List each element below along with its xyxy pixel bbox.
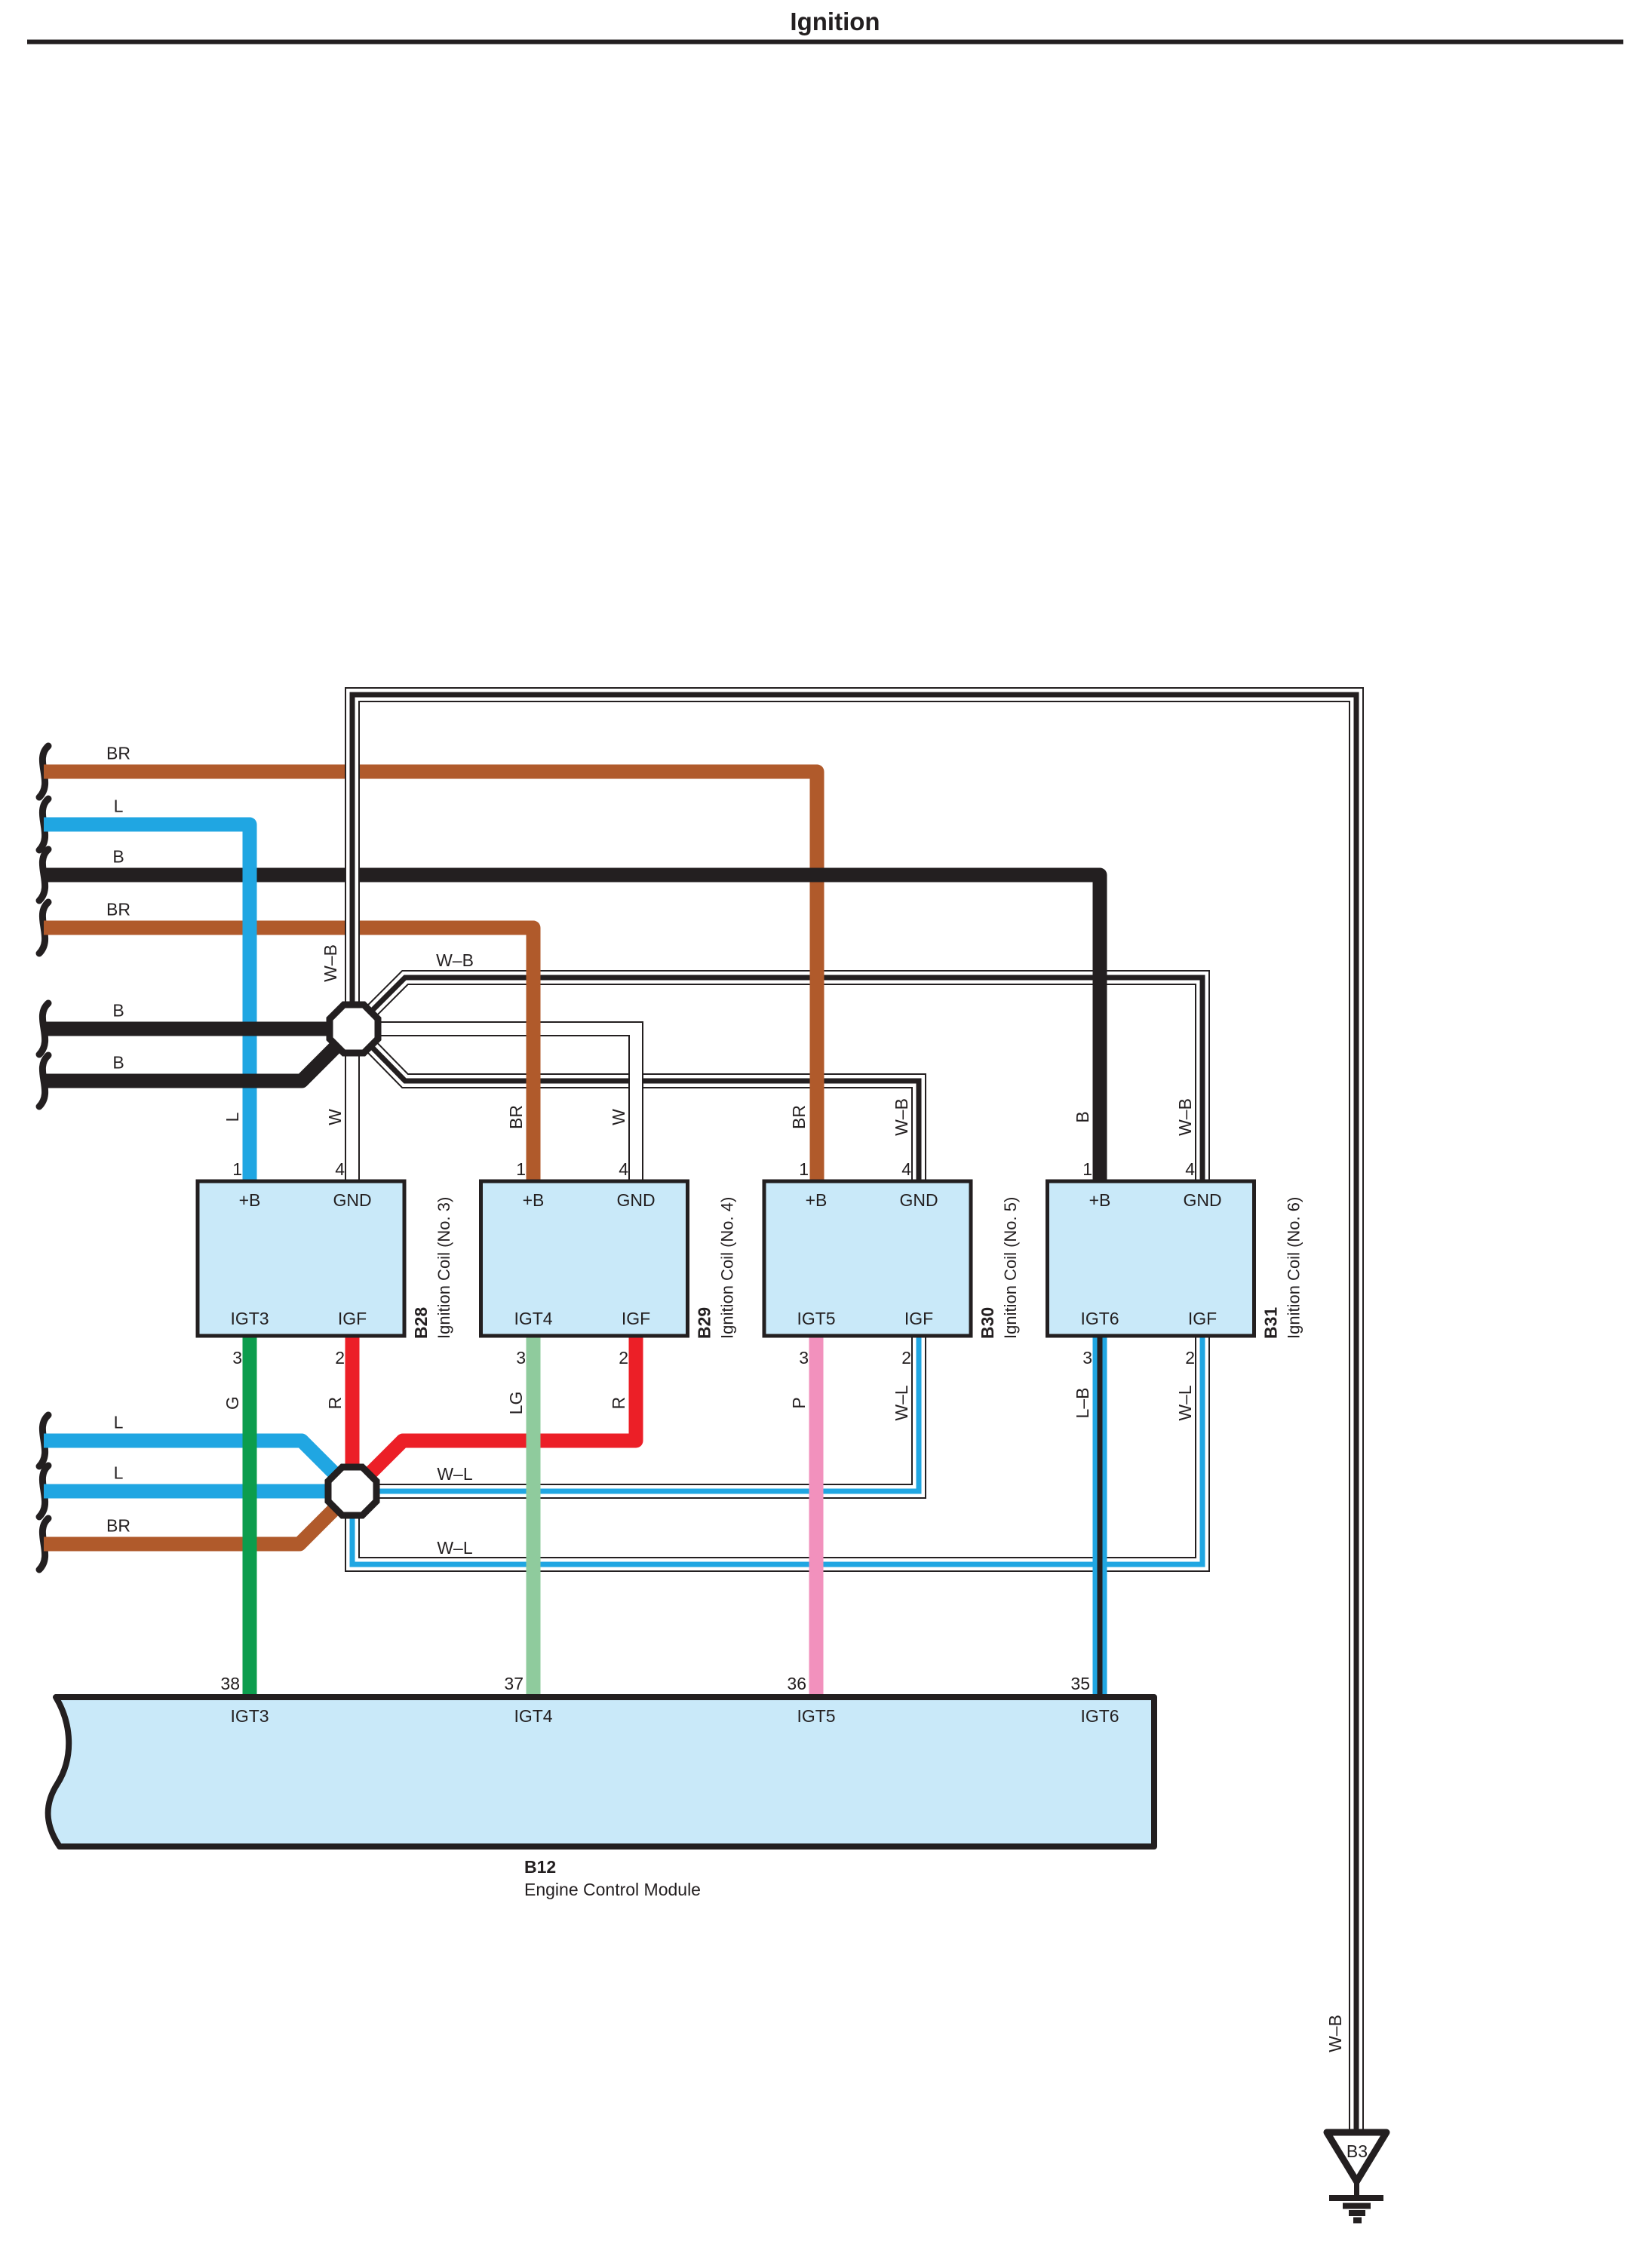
label B at coil top pin wire <box>1073 1111 1092 1122</box>
ECM pin number 37 <box>504 1674 524 1693</box>
svg-text:BR: BR <box>106 744 131 763</box>
svg-text:4: 4 <box>1185 1159 1195 1179</box>
svg-text:L: L <box>114 1463 124 1483</box>
svg-text:BR: BR <box>106 900 131 919</box>
label W-L on wire to B30 IGF <box>437 1464 473 1484</box>
label L at coil top pin wire <box>223 1112 242 1122</box>
svg-text:W–B: W–B <box>1325 2015 1345 2052</box>
svg-text:1: 1 <box>799 1159 809 1179</box>
svg-text:W–L: W–L <box>437 1538 473 1558</box>
svg-text:W–L: W–L <box>892 1385 911 1421</box>
label W at coil top pin wire <box>609 1109 628 1125</box>
label BR at coil top pin wire <box>506 1105 526 1129</box>
svg-text:IGF: IGF <box>1188 1309 1217 1328</box>
label W-B on ground drop wire <box>1325 2015 1345 2052</box>
svg-text:L: L <box>223 1112 242 1122</box>
label R at coil bottom pin wire <box>325 1397 345 1410</box>
label W–L at coil bottom pin wire <box>1175 1385 1195 1421</box>
svg-text:IGT3: IGT3 <box>230 1706 269 1726</box>
svg-text:R: R <box>609 1397 628 1410</box>
svg-text:B: B <box>112 1053 124 1073</box>
svg-text:Ignition Coil (No. 3): Ignition Coil (No. 3) <box>434 1197 453 1339</box>
svg-text:IGT4: IGT4 <box>514 1706 552 1726</box>
svg-text:B: B <box>112 1001 124 1021</box>
svg-text:GND: GND <box>899 1190 938 1210</box>
svg-text:4: 4 <box>901 1159 911 1179</box>
wire W-B from junction J1 to coil B31 pin 4 GND <box>367 978 1202 1181</box>
svg-text:B: B <box>1073 1111 1092 1122</box>
svg-text:IGT5: IGT5 <box>797 1309 835 1328</box>
svg-text:IGF: IGF <box>622 1309 650 1328</box>
label W-B on wire to B31 GND <box>436 950 474 970</box>
svg-text:GND: GND <box>1183 1190 1221 1210</box>
label B on left feed wire <box>112 1001 124 1021</box>
wire G from coil B28 pin 3 IGT3 to ECM pin 38 <box>243 1336 257 1697</box>
ECM pin number 36 <box>787 1674 806 1693</box>
svg-text:W–B: W–B <box>1175 1098 1195 1136</box>
label W at coil top pin wire <box>325 1109 345 1125</box>
wire P from coil B30 pin 3 IGT5 to ECM pin 36 <box>809 1336 824 1697</box>
label L–B at coil bottom pin wire <box>1073 1388 1092 1419</box>
label P at coil bottom pin wire <box>789 1397 809 1408</box>
svg-text:36: 36 <box>787 1674 806 1693</box>
svg-text:B29: B29 <box>695 1307 714 1339</box>
svg-text:Ignition Coil (No. 5): Ignition Coil (No. 5) <box>1001 1197 1020 1339</box>
wire LG from coil B29 pin 3 IGT4 to ECM pin 37 <box>527 1336 541 1697</box>
wire R from junction J2 to coil B29 pin 2 IGF <box>364 1336 636 1480</box>
svg-text:+B: +B <box>1089 1190 1111 1210</box>
svg-text:W–L: W–L <box>437 1464 473 1484</box>
label W-B on junction J1 top wire <box>321 944 340 982</box>
ECM pin number 38 <box>220 1674 240 1693</box>
svg-text:W–B: W–B <box>892 1098 911 1136</box>
label LG at coil bottom pin wire <box>506 1392 526 1415</box>
label G at coil bottom pin wire <box>223 1396 242 1410</box>
svg-text:L–B: L–B <box>1073 1388 1092 1419</box>
wire W from junction J1 to coil B28 pin 4 GND <box>345 1047 360 1181</box>
svg-text:B30: B30 <box>978 1307 997 1339</box>
wire B feed to coil B31 pin 1 <box>39 849 1100 1181</box>
svg-text:+B: +B <box>806 1190 828 1210</box>
svg-text:2: 2 <box>619 1348 628 1368</box>
svg-text:L: L <box>114 1413 124 1432</box>
wire BR feed to coil B29 pin 1 <box>39 902 533 1181</box>
svg-text:IGT4: IGT4 <box>514 1309 552 1328</box>
label BR on left feed wire <box>106 900 131 919</box>
label R at coil bottom pin wire <box>609 1397 628 1410</box>
svg-text:1: 1 <box>232 1159 242 1179</box>
svg-text:B12: B12 <box>524 1857 556 1877</box>
label L on left feed wire <box>114 797 124 816</box>
wire L into junction J2, straight <box>39 1466 338 1517</box>
ignition coil B28 (Ignition Coil (No. 3)) <box>198 1181 453 1339</box>
svg-text:37: 37 <box>504 1674 524 1693</box>
pin numbers of coil B31 <box>1082 1159 1195 1368</box>
title underline <box>27 40 1623 45</box>
svg-text:Ignition: Ignition <box>790 8 880 35</box>
svg-text:B3: B3 <box>1346 2141 1368 2161</box>
svg-text:35: 35 <box>1070 1674 1090 1693</box>
svg-text:Engine Control Module: Engine Control Module <box>524 1880 701 1899</box>
wire L into junction J2, diagonal <box>39 1415 341 1480</box>
label W–L at coil bottom pin wire <box>892 1385 911 1421</box>
label L on left feed wire <box>114 1463 124 1483</box>
label L on left feed wire <box>114 1413 124 1432</box>
ECM B12 Engine Control Module <box>48 1697 1154 1899</box>
label BR on left feed wire <box>106 1516 131 1536</box>
pin numbers of coil B28 <box>232 1159 345 1368</box>
svg-text:1: 1 <box>516 1159 526 1179</box>
title Ignition <box>790 8 880 35</box>
label W–B at coil top pin wire <box>892 1098 911 1136</box>
pin numbers of coil B29 <box>516 1159 628 1368</box>
ground B3 <box>1327 2132 1386 2221</box>
svg-text:R: R <box>325 1397 345 1410</box>
ignition coil B30 (Ignition Coil (No. 5)) <box>764 1181 1020 1339</box>
svg-text:W: W <box>325 1109 345 1125</box>
svg-text:L: L <box>114 797 124 816</box>
svg-text:Ignition Coil (No. 4): Ignition Coil (No. 4) <box>718 1197 737 1339</box>
wire BR feed to coil B30 pin 1, horizontal run <box>39 746 817 1181</box>
svg-text:2: 2 <box>1185 1348 1195 1368</box>
svg-text:+B: +B <box>239 1190 261 1210</box>
label B on left feed wire <box>112 1053 124 1073</box>
svg-text:W: W <box>609 1109 628 1125</box>
junction J2 (octagonal splice) <box>328 1467 376 1515</box>
svg-text:LG: LG <box>506 1392 526 1415</box>
svg-text:IGT5: IGT5 <box>797 1706 835 1726</box>
ignition coil B31 (Ignition Coil (No. 6)) <box>1048 1181 1303 1339</box>
wire W-B from junction J1 to coil B30 pin 4 GND <box>367 1042 919 1181</box>
wire R from coil B28 pin 2 IGF down to junction J2 <box>345 1336 360 1475</box>
wire L-B from coil B31 pin 3 IGT6 to ECM pin 35 <box>1093 1336 1107 1697</box>
svg-text:BR: BR <box>106 1516 131 1536</box>
label B on left feed wire <box>112 847 124 867</box>
svg-text:BR: BR <box>506 1105 526 1129</box>
ignition coil B29 (Ignition Coil (No. 4)) <box>481 1181 737 1339</box>
label W-L on wire to B31 IGF <box>437 1538 473 1558</box>
svg-text:3: 3 <box>516 1348 526 1368</box>
svg-text:1: 1 <box>1082 1159 1092 1179</box>
svg-text:B31: B31 <box>1261 1307 1281 1339</box>
svg-text:2: 2 <box>335 1348 345 1368</box>
ECM pin number 35 <box>1070 1674 1090 1693</box>
svg-text:4: 4 <box>335 1159 345 1179</box>
svg-text:GND: GND <box>333 1190 371 1210</box>
junction J1 (octagonal splice) <box>330 1005 378 1053</box>
svg-text:P: P <box>789 1397 809 1408</box>
wire W-B main ground run from junction J1 to ground B3 <box>352 695 1356 2129</box>
svg-text:4: 4 <box>619 1159 628 1179</box>
svg-text:Ignition Coil (No. 6): Ignition Coil (No. 6) <box>1285 1197 1303 1339</box>
svg-text:3: 3 <box>1082 1348 1092 1368</box>
svg-text:38: 38 <box>220 1674 240 1693</box>
svg-text:3: 3 <box>232 1348 242 1368</box>
svg-text:IGT6: IGT6 <box>1080 1706 1119 1726</box>
svg-text:W–B: W–B <box>321 944 340 982</box>
label BR at coil top pin wire <box>789 1105 809 1129</box>
svg-text:B28: B28 <box>411 1307 431 1339</box>
svg-text:B: B <box>112 847 124 867</box>
label W–B at coil top pin wire <box>1175 1098 1195 1136</box>
wire BR into junction J2, diagonal <box>39 1503 341 1570</box>
svg-text:2: 2 <box>901 1348 911 1368</box>
svg-text:IGT3: IGT3 <box>230 1309 269 1328</box>
svg-text:IGF: IGF <box>338 1309 367 1328</box>
svg-text:3: 3 <box>799 1348 809 1368</box>
svg-text:W–B: W–B <box>436 950 474 970</box>
wire W from junction J1 to coil B29 pin 4 GND <box>368 1029 636 1181</box>
svg-text:IGT6: IGT6 <box>1080 1309 1119 1328</box>
svg-text:G: G <box>223 1396 242 1410</box>
svg-text:IGF: IGF <box>904 1309 933 1328</box>
label BR on left feed wire <box>106 744 131 763</box>
pin numbers of coil B30 <box>799 1159 911 1368</box>
wire L feed to coil B28 pin 1 <box>39 799 250 1181</box>
wire W-L from junction J2 to coil B31 pin 2 IGF <box>352 1336 1202 1564</box>
svg-text:BR: BR <box>789 1105 809 1129</box>
wire W-L from junction J2 to coil B30 pin 2 IGF <box>367 1336 919 1491</box>
svg-text:+B: +B <box>523 1190 545 1210</box>
wire B into junction J1, straight <box>39 1003 338 1054</box>
wire B into junction J1, diagonal <box>39 1042 341 1107</box>
svg-text:GND: GND <box>616 1190 655 1210</box>
svg-text:W–L: W–L <box>1175 1385 1195 1421</box>
